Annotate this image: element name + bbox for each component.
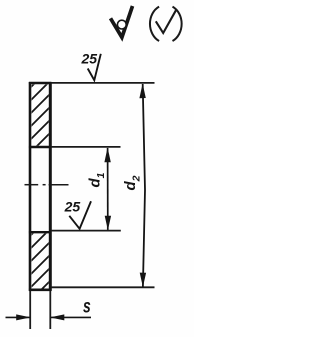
arrow s right xyxy=(50,314,64,320)
d1 top extension line xyxy=(51,146,121,148)
symbol rest-of-surfaces circled check xyxy=(150,7,182,41)
hatch top block xyxy=(18,48,70,191)
d1 bottom extension line xyxy=(51,230,121,232)
d2 top extension line xyxy=(51,82,155,84)
symbol no-machining check with circle xyxy=(111,6,133,37)
svg-text:s: s xyxy=(83,295,91,317)
dimension line d2 xyxy=(143,84,145,287)
dimension line s right xyxy=(51,316,91,318)
washer section left outline xyxy=(29,82,32,291)
centerline xyxy=(25,184,69,186)
svg-text:25: 25 xyxy=(64,198,81,214)
washer section right outline xyxy=(49,82,52,291)
hatch bottom block xyxy=(18,196,70,313)
s left extension line xyxy=(29,291,31,329)
d2 bottom extension line xyxy=(51,286,155,288)
arrow d1 up xyxy=(104,147,110,162)
hole top edge xyxy=(29,146,52,148)
roughness check top xyxy=(88,54,101,80)
washer top edge xyxy=(29,82,52,85)
dimension line s left xyxy=(6,316,30,318)
arrow d1 down xyxy=(105,216,111,231)
arrow s left xyxy=(16,314,30,320)
washer bottom edge xyxy=(29,288,52,291)
svg-text:25: 25 xyxy=(81,51,98,67)
hole bottom edge xyxy=(29,231,52,233)
arrow d2 down xyxy=(140,273,146,288)
roughness check middle xyxy=(69,201,91,229)
arrow d2 up xyxy=(139,84,145,99)
dimension line d1 xyxy=(107,148,109,230)
s right extension line xyxy=(49,291,51,329)
